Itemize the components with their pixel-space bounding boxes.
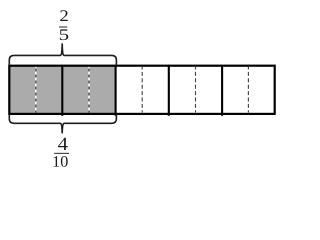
dashed tenth line in shaded cell 1 <box>35 67 37 113</box>
solid fifth divider 2 <box>115 65 117 116</box>
shaded region (first two fifths) <box>9 66 115 114</box>
bottom brace under shaded region with downward tip <box>9 114 116 133</box>
fraction 2/5 bar <box>59 26 67 28</box>
fraction 4/10 bar <box>54 152 69 154</box>
dashed tenth line in cell 5 <box>247 67 249 113</box>
outer rectangle border <box>9 66 274 114</box>
solid fifth divider 3 <box>168 65 170 116</box>
dashed tenth line in cell 3 <box>141 67 143 113</box>
dashed tenth line in cell 4 <box>195 67 197 113</box>
fraction 4/10 denominator <box>53 156 67 167</box>
fraction 2/5 denominator <box>60 29 68 40</box>
solid fifth divider 1 <box>61 65 63 116</box>
top brace over shaded region with upward tip <box>9 43 116 64</box>
fraction 4/10 numerator <box>58 138 68 150</box>
fraction 2/5 numerator <box>60 10 67 21</box>
dashed tenth line in shaded cell 2 <box>88 67 90 113</box>
solid fifth divider 4 <box>221 65 223 116</box>
